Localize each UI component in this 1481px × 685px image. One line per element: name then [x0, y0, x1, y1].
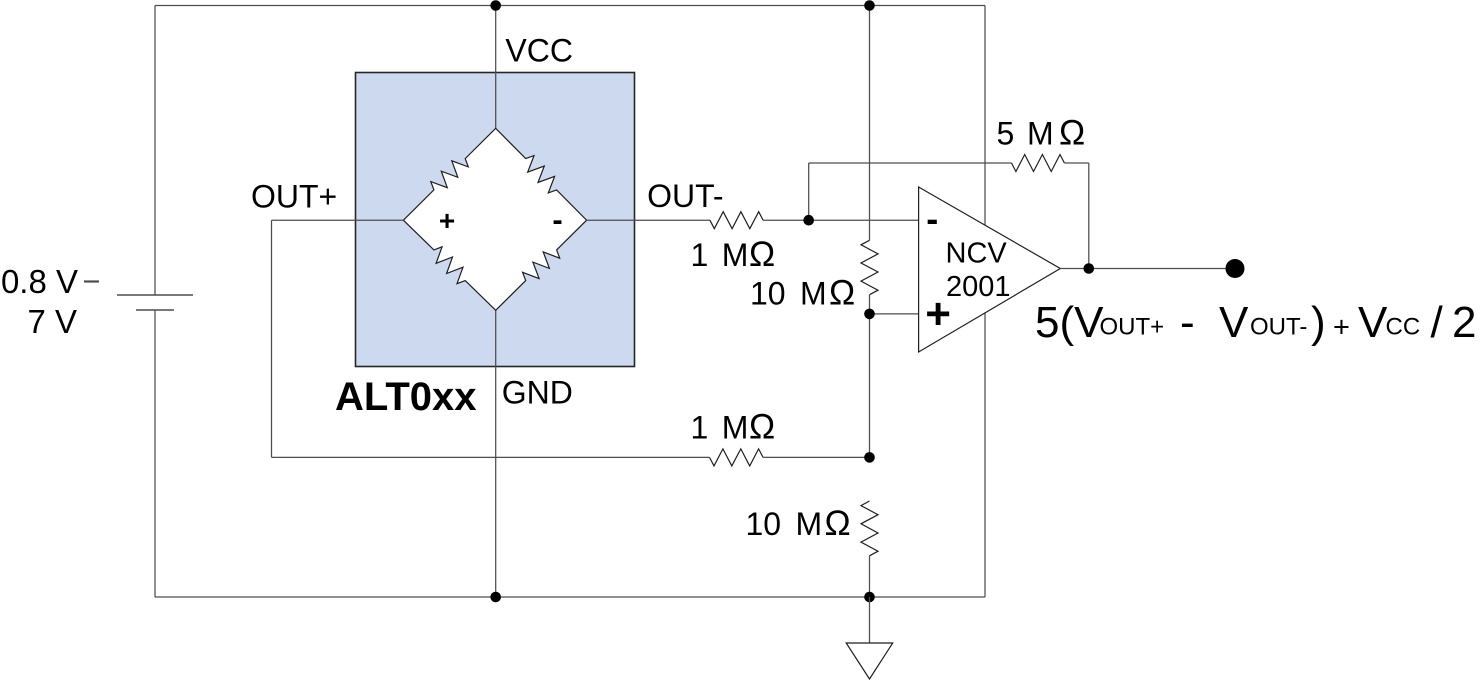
resistor 5 MOhm feedback [1012, 155, 1065, 172]
svg-text:M: M [722, 237, 749, 273]
wire bottom ground rail [155, 596, 985, 598]
svg-text:Ω: Ω [749, 235, 775, 274]
wire left side below battery [154, 310, 156, 597]
svg-text:VCC: VCC [505, 33, 573, 69]
svg-text:10: 10 [746, 506, 782, 542]
wire divider bottom to ground rail [869, 556, 871, 597]
svg-text:1: 1 [691, 237, 709, 273]
svg-text:Ω: Ω [749, 408, 775, 447]
junction dot GND rail / bridge [490, 592, 501, 603]
svg-text:-: - [1180, 298, 1195, 347]
wire feedback top run [809, 162, 1012, 164]
svg-text:2001: 2001 [946, 271, 1011, 303]
resistor 10 MOhm (upper divider) [861, 240, 878, 294]
Wheatstone bridge diamond (4 sense resistors) [403, 128, 586, 310]
sensor package box ALT0xx [356, 73, 635, 367]
svg-text:5: 5 [997, 116, 1015, 152]
wire non-inverting input [870, 313, 919, 315]
junction dot inverting input node [803, 215, 814, 226]
svg-text:M: M [722, 410, 749, 446]
svg-text:V: V [1358, 298, 1388, 347]
svg-text:+: + [1333, 311, 1350, 343]
ground symbol [846, 643, 893, 679]
resistor 1 MOhm (OUT- path) [710, 212, 763, 229]
junction dot OUT+ 1M / divider [864, 452, 875, 463]
op-amp U1 NCV2001 triangle [919, 187, 1061, 352]
svg-text:OUT+: OUT+ [251, 178, 337, 214]
junction dot divider midpoint (+ input) [864, 309, 875, 320]
svg-text:5(V: 5(V [1035, 298, 1104, 347]
svg-text:NCV: NCV [946, 238, 1008, 270]
wire feedback riser at inverting node [808, 163, 810, 220]
wire VCC node to bridge top [495, 6, 497, 129]
svg-text:-: - [926, 198, 938, 239]
wire OUT+ vertical drop [271, 220, 273, 457]
output terminal dot [1226, 259, 1245, 278]
svg-text:-: - [552, 202, 562, 237]
svg-text:/: / [1431, 298, 1444, 347]
wire left side above battery [154, 6, 156, 296]
svg-text:0.8 V: 0.8 V [1, 263, 78, 300]
wire OUT+ stub from bridge left [272, 219, 404, 221]
wire resistor to + divider node [763, 456, 869, 458]
svg-text:Ω: Ω [829, 274, 855, 313]
wire top supply rail (VCC net) [155, 5, 985, 7]
svg-text:10: 10 [750, 276, 786, 312]
output equation 5(Vout+ - Vout-) + Vcc / 2 [1035, 298, 1476, 347]
svg-text:OUT+: OUT+ [1100, 314, 1165, 341]
range dash between 0.8 V and 7 V [84, 280, 99, 282]
svg-text:Ω: Ω [1059, 114, 1085, 153]
svg-text:M: M [1027, 116, 1054, 152]
wire op-amp output [1060, 268, 1235, 270]
svg-text:M: M [800, 276, 827, 312]
wire bridge bottom to GND rail [495, 310, 497, 597]
wire feedback to output corner [1064, 162, 1088, 164]
svg-text:OUT-: OUT- [1250, 314, 1307, 341]
resistor 10 MOhm (lower divider) [861, 501, 878, 556]
svg-text:7 V: 7 V [27, 303, 77, 340]
junction dot output / feedback [1084, 263, 1095, 274]
junction dot VCC rail / bridge [490, 0, 501, 11]
svg-text:+: + [439, 205, 455, 236]
wire OUT+ lower run to resistor [272, 456, 710, 458]
wire ground stub [869, 597, 871, 643]
wire VCC rail down to 10M divider [869, 6, 871, 241]
junction dot VCC rail / divider [864, 0, 875, 11]
svg-text:ALT0xx: ALT0xx [335, 375, 477, 419]
battery V1 0.8 V - 7 V : positive plate [117, 294, 193, 296]
wire resistor to inverting-input node [763, 219, 919, 221]
svg-text:1: 1 [691, 410, 709, 446]
wire divider middle segment [869, 295, 871, 458]
resistor 1 MOhm (OUT+ path) [710, 449, 764, 466]
wire feedback down to output node [1088, 163, 1090, 269]
svg-text:GND: GND [502, 375, 573, 411]
wire right side of supply loop [984, 6, 986, 598]
svg-text:Ω: Ω [825, 504, 851, 543]
junction dot GND rail / divider [864, 592, 875, 603]
svg-text:): ) [1311, 298, 1326, 347]
svg-text:2: 2 [1452, 298, 1476, 347]
wire OUT- stub from bridge right [587, 219, 710, 221]
svg-text:OUT-: OUT- [647, 178, 723, 214]
svg-text:V: V [1219, 298, 1249, 347]
svg-text:M: M [796, 506, 823, 542]
battery V1 negative plate [136, 309, 174, 311]
svg-text:CC: CC [1386, 314, 1421, 341]
